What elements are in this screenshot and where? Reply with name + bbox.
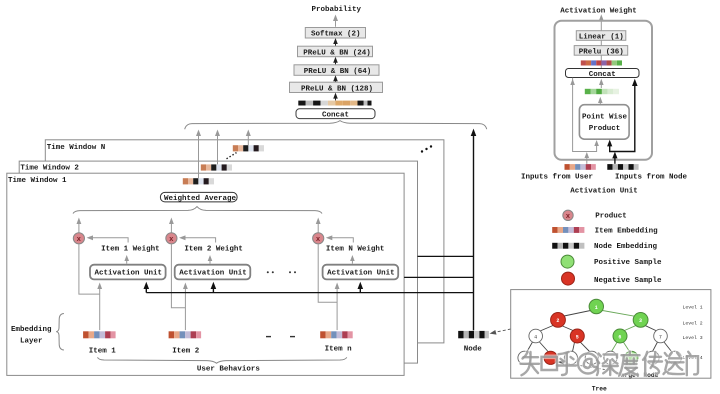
product X3: [313, 218, 324, 244]
item 1 embedding: [83, 331, 116, 338]
arrow window2 output: [215, 130, 220, 165]
panel Time Window 1: [7, 173, 404, 375]
legend item embedding bar: [552, 227, 584, 233]
weighted item embedding bar (Time Window N): [233, 145, 264, 151]
svg-text:6: 6: [618, 334, 621, 340]
wire node input to concat and pwp (black): [607, 79, 638, 164]
tree node 4: [529, 329, 543, 343]
tree edges level3-4: [527, 342, 672, 352]
svg-text:Point Wise: Point Wise: [582, 114, 628, 122]
svg-text:Activation Unit: Activation Unit: [327, 270, 395, 278]
svg-text:Activation Unit: Activation Unit: [570, 187, 638, 195]
box PReLU & BN (24): [298, 46, 373, 57]
node embedding bar: [458, 331, 489, 338]
legend product symbol: [563, 210, 573, 221]
box Softmax: [305, 28, 365, 39]
svg-text:Linear (1): Linear (1): [579, 34, 624, 42]
svg-text:Node: Node: [464, 346, 483, 354]
svg-text:Probability: Probability: [312, 6, 362, 14]
tree box: [511, 290, 711, 379]
svg-text:Activation Unit: Activation Unit: [179, 270, 247, 278]
arrow weight2 into X2: [179, 235, 216, 242]
legend node embedding bar: [552, 243, 584, 249]
tree node 5 (negative): [570, 329, 584, 343]
svg-text:3: 3: [639, 318, 642, 324]
ellipsis between item 2 and item n: [266, 336, 295, 337]
svg-text:Time Window 1: Time Window 1: [8, 177, 67, 185]
svg-text:Level 1: Level 1: [683, 305, 703, 311]
svg-text:Item 2: Item 2: [172, 347, 200, 355]
level labels: [683, 305, 703, 361]
svg-text:2: 2: [556, 318, 559, 324]
arrow AU3 to weightN: [350, 255, 355, 264]
tree node 6 (positive): [613, 329, 627, 343]
svg-text:Inputs from Node: Inputs from Node: [615, 174, 688, 182]
wire item n to AU3 and X3: [318, 244, 339, 330]
wire linear-prelu-concat vertical: [600, 31, 602, 69]
concatenated embedding bar: [298, 101, 371, 106]
node vertical line up to concat: [471, 129, 477, 331]
wire item2 to AU2 and X2: [171, 244, 187, 330]
arrow product result to concat: [599, 79, 604, 88]
inputs from node embedding bar: [607, 164, 638, 170]
arrow weightN into X3: [326, 235, 354, 242]
box Point Wise Product: [579, 105, 629, 140]
dashed arrow target node pointer: [558, 360, 615, 371]
product result embedding (green bar): [585, 89, 619, 94]
ellipsis dots between activation units: [267, 271, 296, 273]
svg-text:Time Window 2: Time Window 2: [20, 165, 79, 173]
svg-text:x: x: [566, 213, 571, 221]
svg-text:Negative Sample: Negative Sample: [594, 277, 662, 285]
arrow AU1 to weight1: [124, 255, 129, 264]
svg-text:5: 5: [576, 334, 579, 340]
tree node 3 (positive): [633, 313, 648, 328]
svg-text:Positive Sample: Positive Sample: [594, 259, 662, 267]
tree node 2 (negative): [551, 313, 566, 328]
svg-text:PReLU & BN (64): PReLU & BN (64): [304, 68, 372, 76]
svg-text:Concat: Concat: [322, 112, 349, 120]
svg-text:x: x: [316, 236, 321, 244]
svg-text:Layer: Layer: [20, 337, 43, 345]
svg-text:Activation Weight: Activation Weight: [560, 7, 637, 15]
item n embedding: [320, 331, 353, 338]
arrow AU2 to weight2: [208, 255, 213, 264]
user behaviors brace: [98, 357, 347, 363]
dotted ellipsis between window bars: [227, 153, 237, 159]
svg-text:Level 2: Level 2: [683, 321, 703, 327]
tree node 7: [654, 329, 668, 343]
item 2 embedding: [169, 331, 202, 338]
watermark strokes: [521, 352, 699, 376]
svg-text:Level 3: Level 3: [683, 335, 703, 341]
embedding layer brace: [56, 314, 64, 351]
inputs from user embedding bar: [565, 164, 596, 170]
tree edges level1-2: [564, 311, 635, 317]
arrow pwp to green bar: [598, 97, 603, 105]
svg-text:7: 7: [659, 334, 662, 340]
svg-text:Item 2 Weight: Item 2 Weight: [184, 245, 243, 253]
svg-text:PReLU & BN (128): PReLU & BN (128): [301, 85, 373, 93]
activation unit outer box: [555, 21, 653, 160]
box Activation Unit 2: [175, 265, 251, 280]
panel Time Window 2: [19, 161, 417, 363]
wire user input to concat and pwp: [570, 78, 599, 164]
svg-text:Softmax (2): Softmax (2): [311, 31, 361, 39]
svg-text:1: 1: [595, 305, 598, 311]
tree node 1 (root, positive): [589, 299, 603, 313]
arrow softmax to probability: [333, 15, 338, 27]
box Linear (1): [576, 31, 626, 42]
box Weighted Average: [160, 192, 237, 203]
legend negative sample circle: [562, 272, 575, 285]
arrow output to Activation Weight: [599, 14, 604, 30]
dashed arrow from tree node to node embedding: [490, 321, 552, 335]
svg-text:Node Embedding: Node Embedding: [594, 243, 658, 251]
box Concat (main): [296, 109, 375, 120]
box Activation Unit 3: [323, 265, 399, 280]
tree leaves level 4: [518, 351, 682, 364]
svg-text:PReLU & BN (24): PReLU & BN (24): [303, 49, 371, 57]
svg-text:Item 1: Item 1: [89, 347, 117, 355]
arrow weight1 into X1: [87, 235, 129, 242]
svg-text:x: x: [77, 236, 82, 244]
svg-text:Weighted Average: Weighted Average: [164, 195, 237, 203]
svg-text:Product: Product: [595, 212, 627, 220]
wire item1 to AU1 and X1: [79, 244, 102, 330]
svg-text:Inputs from User: Inputs from User: [521, 174, 593, 182]
product X1: [73, 218, 84, 244]
box Activation Unit 1: [90, 265, 166, 280]
svg-text:PRelu (36): PRelu (36): [579, 48, 624, 56]
svg-text:x: x: [169, 236, 174, 244]
legend positive sample circle: [561, 255, 574, 268]
svg-text:4: 4: [534, 334, 537, 340]
arrow PReLU128 to PReLU64: [333, 75, 338, 82]
svg-text:Concat: Concat: [589, 71, 616, 79]
label Embedding Layer: [11, 326, 52, 345]
concatenated activation bar: [581, 60, 622, 65]
arrow concat-bar to PReLU128: [333, 93, 338, 101]
box PReLU & BN (64): [294, 65, 379, 76]
arrow windowN output: [246, 130, 251, 146]
svg-text:Time Window N: Time Window N: [47, 144, 106, 152]
box PReLU & BN (128): [290, 82, 383, 93]
weighted item embedding bar (Time Window 2): [201, 164, 232, 170]
panel Time Window N: [45, 140, 444, 343]
node branch to window N (hidden behind panel): [418, 255, 474, 257]
svg-text:Item 1 Weight: Item 1 Weight: [101, 245, 160, 253]
svg-text:Item n: Item n: [325, 346, 353, 354]
arrow window1 output: [196, 130, 201, 179]
svg-text:Tree: Tree: [592, 386, 607, 393]
watermark halo: [521, 352, 699, 376]
svg-text:User Behaviors: User Behaviors: [197, 366, 261, 374]
weighted item embedding bar (Time Window 1): [183, 178, 214, 184]
svg-text:Embedding: Embedding: [11, 326, 52, 334]
node branch to window 2 (hidden behind panel): [404, 276, 473, 278]
svg-text:Product: Product: [589, 125, 621, 133]
over-brace gathering products into Weighted Average: [73, 207, 322, 214]
arrow PReLU64 to PReLU24: [333, 57, 338, 65]
box PRelu (36): [574, 46, 628, 57]
svg-text:Item Embedding: Item Embedding: [595, 227, 659, 235]
arrow PReLU24 to Softmax: [333, 38, 338, 46]
node line horizontal branch to AUs (front window): [144, 282, 474, 293]
tree edges level2-3: [540, 326, 656, 332]
over-brace gathering inputs into Concat: [185, 121, 487, 130]
product X2: [166, 218, 177, 244]
svg-text:Activation Unit: Activation Unit: [95, 270, 163, 278]
dotted ellipsis right side of panels: [421, 145, 432, 152]
svg-text:Item N Weight: Item N Weight: [326, 245, 385, 253]
box Concat (activation unit): [566, 69, 640, 79]
